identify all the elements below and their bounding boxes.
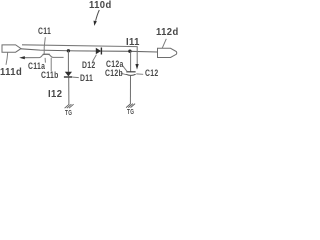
label D11 bbox=[80, 73, 93, 84]
label C12a bbox=[106, 59, 124, 70]
capacitor C12 bbox=[126, 72, 136, 76]
current arrow I11 head bbox=[135, 64, 138, 70]
node junction dot right bbox=[128, 50, 131, 53]
label TG left bbox=[65, 110, 72, 117]
wire right branch vertical bbox=[130, 51, 132, 71]
label C11 bbox=[38, 26, 51, 37]
label TG right bbox=[127, 109, 134, 116]
diode D12 bbox=[96, 48, 102, 55]
wire from D11 to ground bbox=[68, 78, 70, 105]
terminal 111d bbox=[2, 45, 21, 52]
current path I11 line bbox=[22, 45, 137, 65]
leader line for label C11a bbox=[44, 58, 46, 63]
leader line for label 112d bbox=[162, 39, 166, 48]
leader line for label D11 bbox=[73, 76, 79, 79]
current path I12 line with hump over C11 stem bbox=[24, 54, 64, 57]
leader line for label C11b bbox=[50, 58, 52, 72]
leader line for label C12 bbox=[136, 73, 143, 75]
label I12 bbox=[48, 88, 62, 100]
leader line for label C11 with stem bbox=[44, 37, 45, 54]
terminal 112d bbox=[158, 48, 177, 57]
wire main line from 111d to 112d bbox=[21, 49, 158, 52]
current arrow I12 head bbox=[19, 56, 25, 59]
ground TG left bbox=[65, 104, 74, 108]
label I11 bbox=[126, 36, 140, 48]
label D12 bbox=[82, 60, 96, 71]
capacitor C11 plate (hump top) bbox=[43, 53, 50, 55]
label C12b bbox=[105, 68, 123, 79]
label C11a bbox=[28, 61, 45, 72]
leader line for label D12 bbox=[93, 55, 97, 62]
ground TG right bbox=[126, 104, 135, 108]
diode D11 bbox=[64, 72, 72, 77]
label 110d bbox=[89, 0, 112, 11]
leader line for label 111d bbox=[6, 52, 8, 65]
wire left branch vertical bbox=[67, 51, 69, 72]
wire from C12 to ground bbox=[129, 76, 131, 104]
leader line for label C12a bbox=[122, 65, 127, 71]
node junction dot left bbox=[67, 49, 70, 52]
label 111d bbox=[0, 66, 22, 78]
leader arrow for label 110d bbox=[94, 10, 100, 26]
label 112d bbox=[156, 26, 179, 38]
leader line for label C12b bbox=[121, 73, 126, 75]
label C12 bbox=[145, 68, 159, 79]
label C11b bbox=[41, 70, 59, 81]
